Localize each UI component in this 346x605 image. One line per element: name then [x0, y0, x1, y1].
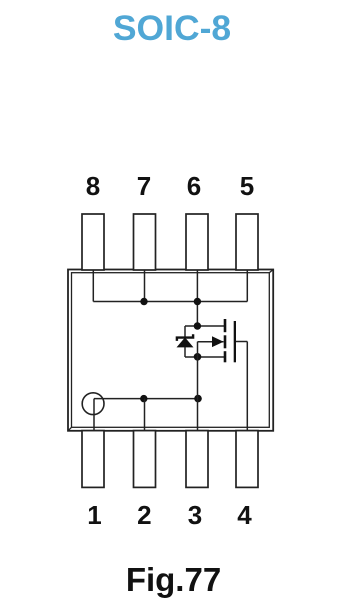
- pin 1 lead: [82, 431, 104, 488]
- pin 6 lead: [186, 214, 208, 270]
- wire source node to source bus and pin 3: [197, 357, 199, 431]
- junction dot source node: [194, 353, 202, 361]
- mosfet Q1 channel bar source segment: [224, 351, 227, 362]
- mosfet Q1 body arrow: [212, 336, 224, 347]
- pin 5 lead: [236, 214, 258, 270]
- mosfet Q1 gate bar: [234, 321, 236, 362]
- pin 1 indicator circle: [82, 393, 104, 415]
- svg-text:1: 1: [87, 500, 101, 530]
- wire pin 6 to drain node: [196, 270, 198, 327]
- zener diode D1 triangle: [178, 338, 193, 347]
- mosfet Q1 gate lead wire: [236, 341, 247, 343]
- zener diode D1 anode lead: [184, 347, 186, 357]
- zener diode D1 cathode lead: [184, 326, 186, 338]
- svg-text:3: 3: [188, 500, 202, 530]
- svg-text:SOIC-8: SOIC-8: [113, 8, 231, 48]
- pin 3 lead: [186, 431, 208, 488]
- package body inner outline: [72, 273, 270, 428]
- mosfet Q1 channel bar drain segment: [224, 319, 227, 332]
- pin 4 lead: [236, 431, 258, 488]
- svg-text:2: 2: [137, 500, 151, 530]
- drain bus wire: [93, 301, 247, 303]
- wire pin 5 to drain bus: [246, 270, 248, 302]
- wire zener anode to source node: [185, 356, 225, 358]
- svg-text:4: 4: [237, 500, 252, 530]
- zener diode D1 cathode bar: [177, 334, 193, 341]
- wire body to source node: [197, 342, 199, 357]
- package inner chamfer top-right: [269, 270, 273, 273]
- junction dot pin 6 / drain bus: [194, 298, 201, 305]
- source bus wire: [94, 398, 198, 400]
- wire source bus to pin 1: [93, 399, 95, 431]
- svg-text:Fig.77: Fig.77: [126, 561, 221, 598]
- pin 7 lead: [134, 214, 156, 270]
- wire gate to pin 4: [246, 342, 248, 431]
- mosfet Q1 body wire: [198, 341, 224, 343]
- pin 8 lead: [82, 214, 104, 270]
- junction dot pin 3 / source bus: [194, 395, 202, 403]
- junction dot drain node: [194, 322, 201, 329]
- mosfet Q1 channel bar body segment: [224, 335, 227, 348]
- pin 2 lead: [134, 431, 156, 488]
- wire source bus to pin 2: [144, 399, 146, 431]
- svg-text:5: 5: [240, 171, 254, 201]
- junction dot pin 7 / drain bus: [140, 298, 147, 305]
- svg-text:7: 7: [137, 171, 151, 201]
- drain node wire to mosfet: [185, 325, 225, 327]
- svg-text:6: 6: [187, 171, 201, 201]
- package body outer outline: [68, 270, 273, 431]
- svg-text:8: 8: [86, 171, 100, 201]
- wire pin 7 to drain bus: [144, 270, 146, 302]
- package inner chamfer bottom-left: [68, 427, 72, 431]
- wire pin 8 to drain bus: [92, 270, 94, 302]
- junction dot pin 2 / source bus: [140, 395, 147, 402]
